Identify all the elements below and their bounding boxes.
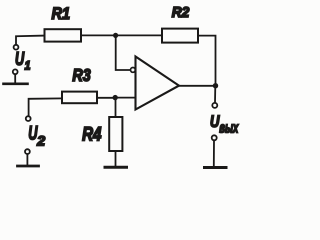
wire: R2 right to node B (output) — [198, 36, 216, 86]
wire: node C down to R4 — [115, 98, 117, 117]
wire: R1 to node A — [81, 34, 116, 36]
resistor R2 — [162, 29, 198, 43]
svg-text:R1: R1 — [52, 4, 71, 23]
wire: node A to R2 — [116, 34, 163, 36]
ground (under Uout) — [205, 166, 227, 169]
wire: R4 to ground — [115, 151, 117, 166]
ground (under R4) — [105, 166, 127, 169]
wire: U2 lower terminal to ground — [26, 154, 28, 165]
node C (non-inverting input node) — [113, 95, 118, 100]
ground (under U2) — [18, 165, 39, 168]
svg-text:2: 2 — [36, 132, 45, 148]
svg-text:1: 1 — [25, 61, 31, 73]
resistor R1 — [45, 29, 82, 41]
terminal U2 upper — [26, 116, 31, 121]
inverting input bubble — [131, 68, 136, 73]
terminal U2 lower — [25, 149, 30, 154]
svg-text:R4: R4 — [82, 124, 102, 145]
wire: node B down to output terminal — [214, 86, 216, 103]
op-amp — [136, 57, 180, 110]
terminal Uout lower — [212, 135, 217, 140]
wire: Uout lower terminal to ground — [213, 140, 215, 166]
svg-text:R2: R2 — [172, 4, 190, 21]
terminal U1 upper — [14, 45, 19, 50]
wire: R3 to node C — [97, 97, 115, 99]
svg-text:R3: R3 — [72, 65, 91, 85]
wire: node A down to inverting input — [116, 35, 131, 70]
svg-text:вых: вых — [219, 120, 239, 136]
node A (inverting summing node) — [113, 33, 118, 38]
svg-text:U: U — [15, 48, 25, 69]
node B (output node) — [213, 83, 218, 88]
wire: U1 lower terminal to ground — [14, 74, 16, 83]
wire: op-amp output to node B — [179, 85, 216, 87]
wire: U2 terminal up and right to R3 — [29, 98, 62, 116]
terminal U1 lower — [13, 69, 18, 74]
ground (under U1) — [4, 83, 28, 86]
terminal Uout upper — [212, 103, 217, 108]
wire: node C to non-inverting input — [115, 97, 135, 99]
resistor R3 — [62, 92, 97, 104]
wire: terminal U1 up and right to R1 — [16, 36, 45, 45]
resistor R4 — [109, 117, 122, 151]
